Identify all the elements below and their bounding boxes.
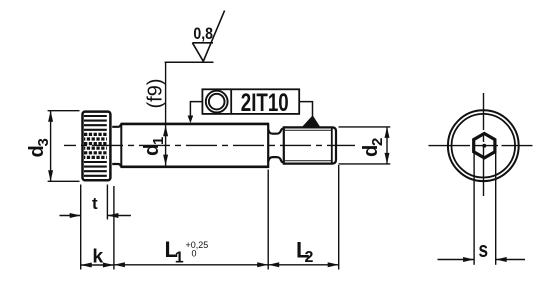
svg-text:0,8: 0,8 <box>193 25 213 43</box>
svg-text:1: 1 <box>150 137 167 145</box>
svg-text:3: 3 <box>35 138 52 146</box>
svg-text:2: 2 <box>369 138 386 146</box>
svg-text:2: 2 <box>305 249 314 266</box>
svg-text:(f9): (f9) <box>145 79 167 109</box>
svg-text:+0,25: +0,25 <box>186 240 209 250</box>
svg-text:2IT10: 2IT10 <box>241 88 289 116</box>
svg-text:t: t <box>92 194 98 213</box>
svg-text:k: k <box>92 246 103 268</box>
svg-text:s: s <box>479 238 489 263</box>
svg-text:1: 1 <box>175 250 184 267</box>
svg-text:0: 0 <box>192 249 197 259</box>
